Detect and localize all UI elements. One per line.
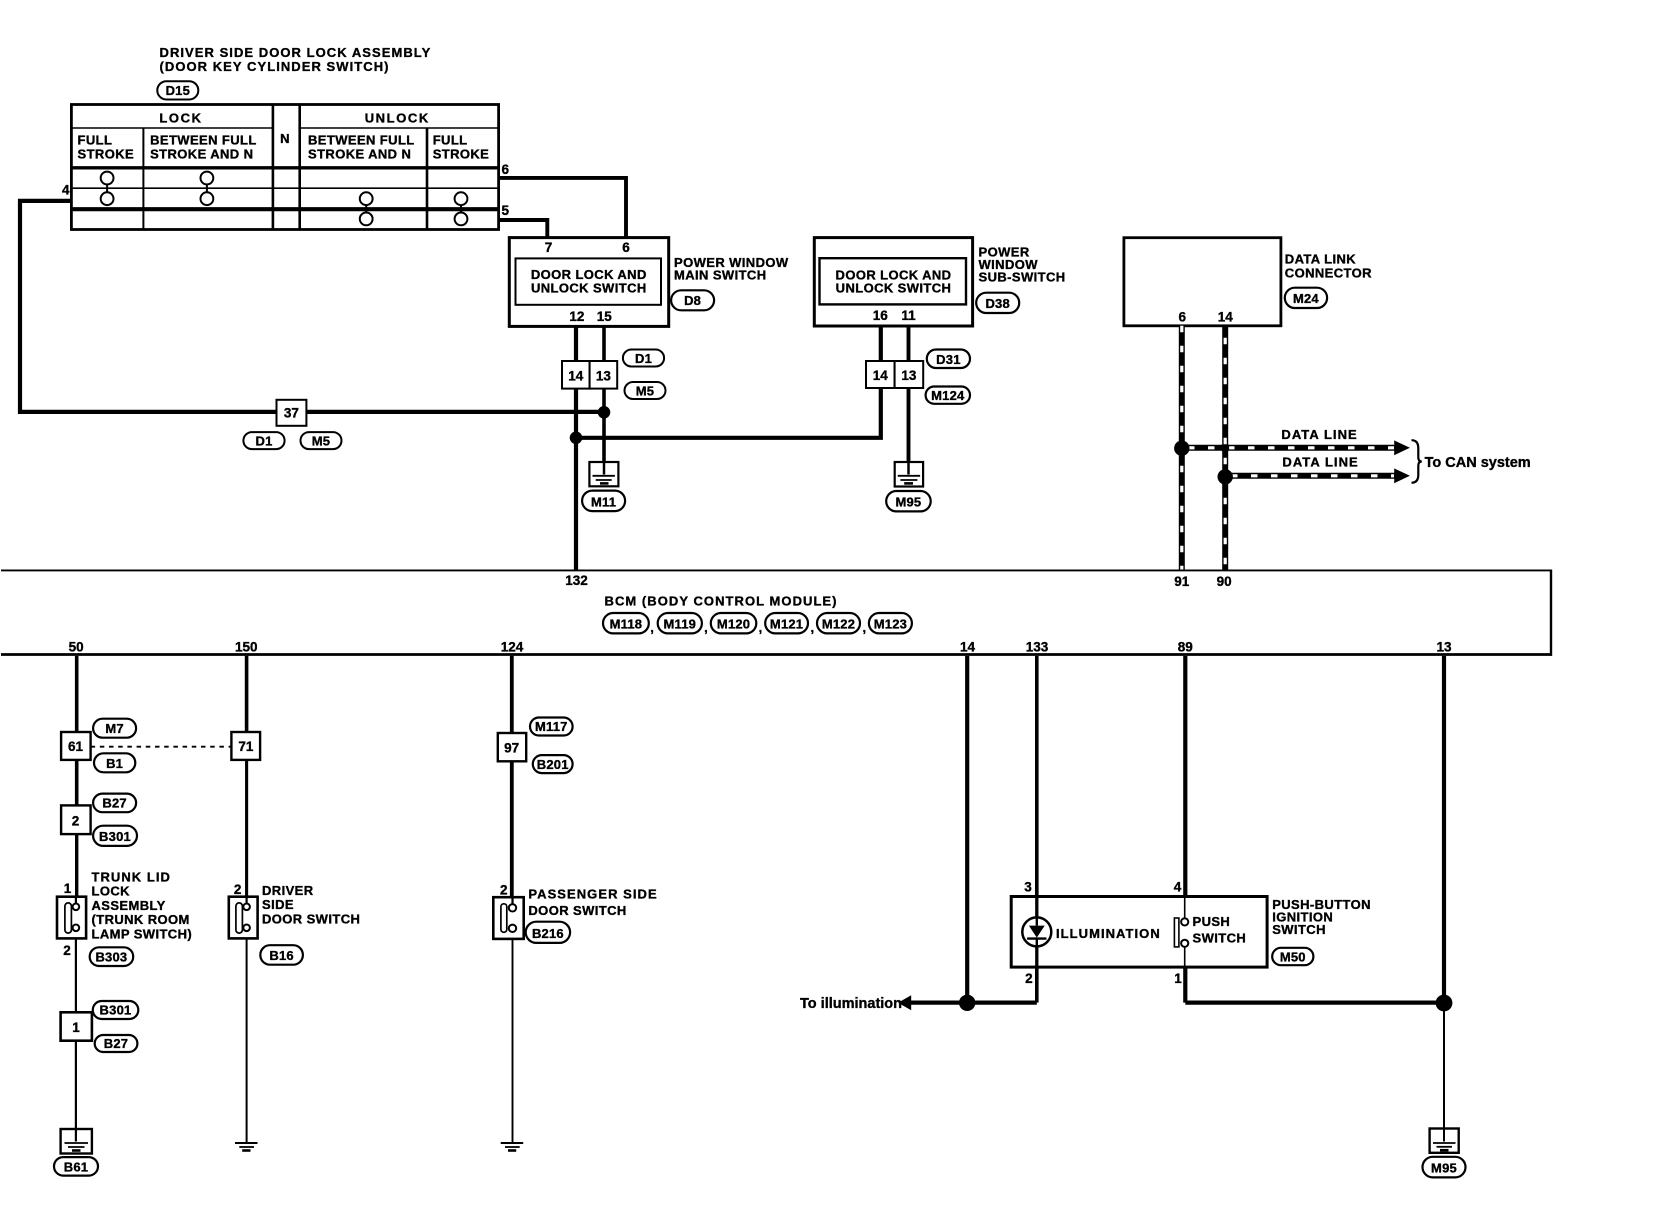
svg-text:D1: D1	[255, 434, 272, 449]
connector box 13 (D31/M124)	[895, 361, 924, 388]
svg-text:LOCK: LOCK	[159, 111, 202, 126]
svg-text:B27: B27	[102, 796, 126, 811]
connector box 14 (D31/M124)	[866, 361, 895, 388]
ground M95 (sub-switch)	[895, 462, 923, 487]
svg-text:61: 61	[68, 739, 84, 754]
svg-text:1: 1	[1174, 971, 1182, 986]
label driver side door switch	[262, 883, 360, 926]
svg-text:B61: B61	[64, 1159, 88, 1174]
svg-text:M11: M11	[591, 494, 616, 509]
svg-text:To illumination: To illumination	[800, 996, 902, 1012]
svg-text:B301: B301	[100, 1003, 132, 1018]
svg-text:14: 14	[1218, 309, 1234, 324]
svg-text:,: ,	[759, 620, 763, 635]
wire 124 upper	[510, 656, 514, 733]
wire pin5 to D8	[499, 220, 548, 239]
svg-text:16: 16	[873, 308, 889, 323]
svg-text:132: 132	[565, 573, 588, 588]
svg-text:CONNECTOR: CONNECTOR	[1285, 265, 1372, 280]
wire 50 to ground B61	[75, 1041, 77, 1142]
svg-text:4: 4	[62, 183, 70, 198]
svg-text:DOOR SWITCH: DOOR SWITCH	[262, 911, 360, 926]
table header labels	[78, 111, 490, 162]
svg-text:MAIN SWITCH: MAIN SWITCH	[674, 268, 767, 283]
svg-text:M117: M117	[535, 719, 568, 734]
svg-text:13: 13	[901, 368, 917, 383]
svg-text:DATA LINE: DATA LINE	[1281, 427, 1357, 442]
svg-text:DRIVER SIDE DOOR LOCK ASSEMBLY: DRIVER SIDE DOOR LOCK ASSEMBLY	[160, 45, 432, 60]
svg-text:DRIVER: DRIVER	[262, 883, 314, 898]
svg-text:B216: B216	[532, 926, 564, 941]
wire pin 1 to wire 13	[1185, 1000, 1444, 1004]
data link connector M24 box	[1124, 238, 1281, 326]
svg-text:14: 14	[568, 369, 584, 384]
svg-text:STROKE: STROKE	[433, 147, 490, 162]
brace to CAN system	[1412, 440, 1422, 483]
wire to illumination	[898, 995, 1037, 1010]
svg-text:LOCK: LOCK	[92, 884, 131, 899]
svg-text:2: 2	[63, 943, 71, 958]
connector M123 oval	[869, 613, 912, 633]
connector box 13 (D1/M5)	[590, 361, 618, 389]
svg-text:D1: D1	[635, 351, 652, 366]
wire pin 2 down	[1035, 967, 1039, 1003]
power window sub-switch D38 box	[814, 238, 972, 326]
label passenger side door switch	[528, 887, 657, 919]
svg-text:N: N	[280, 131, 290, 146]
push-button ignition switch M50 box	[1011, 897, 1267, 968]
connector box 71	[231, 732, 260, 760]
svg-text:M5: M5	[312, 434, 330, 449]
svg-text:B303: B303	[95, 950, 127, 965]
svg-text:BETWEEN FULL: BETWEEN FULL	[308, 133, 415, 148]
svg-text:1: 1	[64, 881, 72, 896]
connector M121 oval	[765, 613, 808, 633]
svg-text:97: 97	[504, 741, 519, 756]
wire 14 from BCM	[965, 656, 969, 1003]
connector M124 oval	[926, 387, 970, 404]
svg-text:SUB-SWITCH: SUB-SWITCH	[979, 270, 1066, 285]
wire 50 upper	[75, 656, 79, 732]
svg-text:UNLOCK: UNLOCK	[365, 111, 430, 126]
svg-text:13: 13	[596, 369, 612, 384]
svg-text:M5: M5	[636, 384, 654, 399]
connector B27 oval	[93, 794, 136, 813]
switch contacts unlock full stroke	[455, 192, 468, 225]
wire B from node to D38 pin 16	[576, 326, 881, 438]
wire 11 from D38 to ground M95	[907, 326, 911, 463]
wire 13 to ground M95	[1443, 1003, 1445, 1142]
svg-text:71: 71	[238, 739, 254, 754]
svg-text:15: 15	[597, 309, 613, 324]
ground M11	[589, 462, 618, 486]
svg-text:M122: M122	[822, 616, 855, 631]
svg-text:ASSEMBLY: ASSEMBLY	[92, 898, 166, 913]
svg-text:14: 14	[960, 640, 976, 655]
connector box 97	[498, 733, 526, 761]
svg-text:(DOOR KEY CYLINDER SWITCH): (DOOR KEY CYLINDER SWITCH)	[160, 59, 390, 74]
svg-text:M123: M123	[874, 616, 907, 631]
svg-text:37: 37	[284, 406, 299, 421]
connector M119 oval	[658, 613, 702, 633]
title: driver side door lock assembly	[160, 45, 432, 74]
wire pin4 loop to node 37	[20, 201, 604, 412]
connector box 14 (D1/M5)	[562, 361, 590, 389]
connector D15	[157, 81, 198, 99]
svg-text:PUSH: PUSH	[1193, 914, 1231, 929]
svg-text:B27: B27	[104, 1036, 128, 1051]
svg-text:BETWEEN FULL: BETWEEN FULL	[150, 133, 257, 148]
connector M95 oval (sub-switch)	[886, 491, 931, 511]
ground M95 (bottom right)	[1430, 1129, 1459, 1153]
svg-text:1: 1	[72, 1020, 80, 1035]
wire 150 upper	[245, 656, 249, 732]
svg-text:124: 124	[501, 640, 524, 655]
svg-text:(TRUNK ROOM: (TRUNK ROOM	[92, 912, 190, 927]
wire pin6 to D8	[499, 178, 626, 239]
connector B61 oval	[54, 1157, 98, 1176]
junction node CAN 2	[1218, 469, 1233, 484]
black patch at CAN crossing	[1221, 445, 1229, 451]
svg-text:11: 11	[901, 308, 916, 323]
connector B201 oval	[533, 755, 573, 773]
connector B16 oval	[260, 945, 303, 965]
junction node CAN 1	[1174, 441, 1189, 456]
wire 150 below driver switch	[246, 931, 248, 1142]
junction node on wire 12	[570, 432, 583, 445]
svg-text:13: 13	[1436, 640, 1452, 655]
svg-text:DOOR SWITCH: DOOR SWITCH	[528, 903, 626, 918]
driver side door switch	[229, 897, 258, 939]
connector B216 oval	[526, 922, 570, 943]
wire 89 from BCM	[1183, 656, 1187, 897]
switch contacts lock between full stroke and n	[201, 172, 214, 206]
wire 50 between 61 and 2	[75, 760, 79, 806]
label power window main switch	[674, 255, 789, 283]
wire 150 to driver switch	[245, 760, 248, 904]
connector B301 oval lower	[93, 1001, 139, 1019]
switch contacts lock full stroke	[101, 172, 114, 206]
svg-text:M95: M95	[895, 495, 921, 510]
svg-text:STROKE AND N: STROKE AND N	[150, 147, 253, 162]
svg-text:SIDE: SIDE	[262, 897, 294, 912]
CAN wire from DLC pin 6	[1179, 326, 1185, 571]
junction node on wire 15	[598, 406, 611, 419]
connector M11 oval	[582, 491, 625, 512]
dashed link 61 to 71	[91, 746, 232, 748]
junction node wire 13	[1436, 995, 1453, 1012]
svg-text:B301: B301	[99, 829, 131, 844]
connector M50 oval	[1272, 948, 1313, 965]
connector D8 oval	[671, 290, 714, 310]
connector box 2	[61, 805, 91, 834]
svg-text:M119: M119	[663, 616, 696, 631]
svg-text:91: 91	[1174, 574, 1190, 589]
svg-text:DATA LINK: DATA LINK	[1285, 251, 1356, 266]
svg-text:90: 90	[1217, 574, 1232, 589]
svg-text:D8: D8	[684, 293, 701, 308]
svg-text:4: 4	[1174, 880, 1182, 895]
svg-text:SWITCH: SWITCH	[1272, 922, 1326, 937]
connector M5 oval	[625, 382, 666, 399]
connector box 1	[61, 1012, 92, 1040]
svg-text:M118: M118	[610, 616, 643, 631]
connector D1 oval (near 37)	[243, 432, 284, 449]
svg-text:D31: D31	[936, 352, 960, 367]
wire pin 1 down	[1183, 967, 1187, 1003]
connector M5 oval (near 37)	[301, 432, 342, 449]
svg-text:2: 2	[1025, 971, 1033, 986]
svg-text:M120: M120	[717, 616, 750, 631]
svg-text:14: 14	[873, 368, 889, 383]
svg-text:SWITCH: SWITCH	[1193, 930, 1247, 945]
svg-text:5: 5	[502, 203, 510, 218]
svg-text:M121: M121	[770, 616, 803, 631]
CAN data line 1 horizontal	[1182, 440, 1410, 455]
svg-text:,: ,	[863, 620, 867, 635]
svg-text:B201: B201	[537, 757, 569, 772]
passenger side door switch	[493, 897, 523, 939]
ground B61	[61, 1129, 92, 1154]
connector M118 oval	[603, 613, 649, 633]
key cylinder switch table D15	[71, 105, 498, 230]
svg-text:M7: M7	[105, 721, 123, 736]
label push-button ignition switch	[1272, 897, 1371, 937]
svg-text:,: ,	[650, 620, 654, 635]
svg-text:B1: B1	[106, 756, 123, 771]
trunk lid lock switch	[57, 897, 86, 939]
wire 12 from D8 to BCM pin 132	[574, 326, 578, 570]
ground driver side	[235, 1143, 258, 1151]
connector box 37	[277, 400, 307, 426]
wire 50 to trunk switch	[75, 834, 78, 904]
svg-text:6: 6	[1178, 309, 1186, 324]
connector D38 oval	[976, 293, 1019, 313]
illumination LED	[1022, 917, 1051, 946]
svg-text:50: 50	[69, 640, 84, 655]
svg-text:To CAN system: To CAN system	[1425, 455, 1531, 471]
CAN data line 2 horizontal	[1225, 468, 1410, 483]
connector M117 oval	[530, 718, 573, 736]
svg-text:ILLUMINATION: ILLUMINATION	[1056, 926, 1161, 941]
label trunk lid lock assembly	[92, 870, 193, 942]
svg-text:7: 7	[545, 240, 553, 255]
svg-text:M124: M124	[931, 388, 965, 403]
connector D31 oval	[927, 350, 970, 369]
connector M95 oval (bottom right)	[1423, 1157, 1466, 1178]
svg-text:2: 2	[500, 883, 508, 898]
svg-text:6: 6	[502, 162, 510, 177]
svg-text:2: 2	[234, 882, 242, 897]
svg-text:133: 133	[1026, 640, 1049, 655]
connector M24 oval	[1285, 288, 1327, 308]
CAN wire from DLC pin 14	[1222, 326, 1228, 571]
svg-text:,: ,	[811, 620, 815, 635]
svg-text:89: 89	[1178, 640, 1193, 655]
connector B27 oval lower	[95, 1035, 138, 1052]
label power window sub-switch	[979, 245, 1066, 285]
connector M120 oval	[711, 613, 757, 633]
connector B301 oval	[93, 826, 137, 846]
connector M122 oval	[817, 613, 860, 633]
svg-text:M24: M24	[1293, 291, 1319, 306]
wire 15 from D8 to ground M11	[602, 326, 606, 463]
wire 124 below passenger switch	[512, 932, 514, 1142]
svg-text:,: ,	[704, 620, 708, 635]
ground passenger side	[501, 1143, 524, 1151]
svg-text:12: 12	[569, 309, 584, 324]
label push switch	[1193, 914, 1247, 945]
svg-text:UNLOCK SWITCH: UNLOCK SWITCH	[531, 280, 647, 295]
svg-text:D15: D15	[166, 83, 190, 98]
push switch contacts	[1174, 897, 1188, 968]
svg-text:3: 3	[1024, 880, 1032, 895]
svg-text:DATA LINE: DATA LINE	[1282, 454, 1358, 469]
svg-text:B16: B16	[269, 948, 293, 963]
power window main switch D8 box	[509, 238, 668, 327]
svg-text:FULL: FULL	[78, 133, 113, 148]
svg-text:LAMP SWITCH): LAMP SWITCH)	[92, 926, 193, 941]
switch contacts unlock between full stroke and n	[360, 192, 373, 225]
svg-text:6: 6	[622, 240, 630, 255]
svg-text:D38: D38	[985, 296, 1009, 311]
connector box 61	[61, 732, 91, 760]
svg-text:STROKE AND N: STROKE AND N	[308, 147, 411, 162]
wire 50 below trunk switch	[75, 931, 77, 1013]
svg-text:M50: M50	[1280, 949, 1306, 964]
connector B1 oval	[94, 753, 135, 772]
svg-text:PASSENGER SIDE: PASSENGER SIDE	[528, 887, 657, 902]
wire 13 from BCM	[1442, 656, 1446, 1003]
wire 133 from BCM	[1035, 656, 1039, 897]
illumination wire inside	[1035, 897, 1038, 919]
svg-text:M95: M95	[1431, 1160, 1457, 1175]
junction node wire 14	[959, 995, 975, 1011]
svg-text:UNLOCK SWITCH: UNLOCK SWITCH	[836, 280, 952, 295]
svg-text:2: 2	[72, 814, 80, 829]
connector B303 oval	[90, 947, 134, 966]
svg-text:FULL: FULL	[433, 133, 468, 148]
label data link connector	[1285, 251, 1372, 280]
svg-text:150: 150	[235, 640, 258, 655]
connector D1 oval	[623, 350, 664, 367]
BCM body control module box	[1, 570, 1551, 656]
svg-text:STROKE: STROKE	[78, 147, 135, 162]
wire 124 to passenger switch	[510, 761, 514, 904]
svg-text:TRUNK LID: TRUNK LID	[92, 870, 172, 885]
svg-text:BCM (BODY CONTROL MODULE): BCM (BODY CONTROL MODULE)	[605, 593, 838, 608]
connector M7 oval	[93, 719, 136, 738]
